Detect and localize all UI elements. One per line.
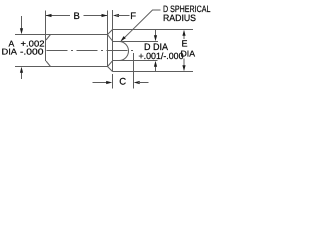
body bottom edge with A extension to left: [15, 66, 108, 68]
left end chamfer bottom: [46, 61, 51, 67]
dimension C right arrow: [134, 81, 140, 84]
upper reference line: [113, 29, 194, 31]
head bottom reference line extended right: [113, 71, 194, 73]
dimension D bottom arrow: [155, 66, 157, 72]
dimension F tail: [116, 15, 130, 17]
spherical tip arc: [119, 42, 129, 61]
svg-text:E: E: [182, 39, 188, 49]
nose top line with D extension right: [113, 41, 159, 43]
nose bottom line with D extension right: [113, 60, 158, 62]
svg-text:RADIUS: RADIUS: [163, 13, 196, 23]
head cone profile top: [108, 30, 113, 42]
svg-text:+.001/-.000: +.001/-.000: [139, 51, 184, 61]
svg-text:C: C: [119, 77, 126, 88]
svg-text:F: F: [130, 11, 136, 22]
dimension A top arrow: [21, 16, 23, 30]
left end chamfer top: [46, 35, 51, 41]
dimension E top arrow: [183, 33, 185, 39]
head cone profile bottom: [108, 61, 113, 72]
leader to spherical radius: [122, 10, 161, 41]
nose base line with F extension above: [112, 10, 114, 72]
svg-text:B: B: [74, 11, 80, 22]
svg-text:DIA: DIA: [181, 48, 196, 58]
dimension B line: [46, 15, 108, 17]
body right face with B extension above: [107, 11, 109, 67]
sphere tip extension line for C: [133, 53, 135, 89]
body left face with B extension above: [45, 11, 47, 62]
centerline: [47, 50, 137, 52]
dimension C left arrow: [93, 82, 107, 84]
svg-text:DIA: DIA: [2, 47, 18, 57]
dimension B right arrowhead: [102, 14, 108, 17]
dimension F arrowhead: [113, 14, 119, 17]
body top edge with A extension to left: [15, 34, 108, 36]
dimension D top arrow: [155, 30, 157, 36]
dimension B left arrowhead: [46, 14, 52, 17]
dimension E bottom arrow: [183, 59, 185, 66]
svg-text:-.000: -.000: [20, 47, 44, 57]
C extension below head back face: [112, 74, 114, 89]
dimension A bottom arrow: [21, 72, 23, 80]
